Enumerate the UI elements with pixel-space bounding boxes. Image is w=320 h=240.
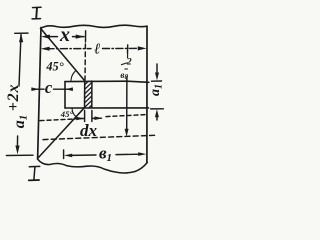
- elementary strip dx (hatched): [85, 81, 92, 108]
- svg-text:45°: 45°: [60, 109, 74, 119]
- vertical dimension line at x=127 with down arrow: [126, 77, 128, 132]
- angle arc (lower 45°): [72, 108, 76, 117]
- tick on ell line at x=127.5: [127, 45, 129, 53]
- dashed extension of dx line (right): [106, 115, 146, 117]
- label I (top): [32, 7, 41, 19]
- label I (bottom): [29, 166, 40, 180]
- dimension b1 (bottom): tick, line, arrows: [63, 150, 65, 159]
- label b0=h/2 (small stacked annotation): [120, 53, 131, 81]
- plate top edge (wavy break line): [41, 25, 148, 28]
- dimension a1 (right side): extension ticks: [151, 81, 164, 109]
- dimension x: extension tick: [85, 31, 87, 42]
- angle arc (upper 45°): [71, 71, 75, 81]
- 45-degree diagonal (lower): [38, 108, 84, 158]
- svg-text:dx: dx: [80, 121, 98, 140]
- svg-text:+2x: +2x: [5, 84, 22, 112]
- plate left edge (section I-I line): [38, 28, 41, 160]
- dimension a1+2x: extension ticks: [6, 33, 33, 155]
- dimension c: arrows and segments: [32, 88, 72, 90]
- svg-text:x: x: [59, 24, 70, 46]
- dimension x: line and arrows: [47, 36, 85, 38]
- plate right edge: [146, 26, 148, 162]
- strap left edge: [64, 82, 66, 108]
- dimension ell: dash-dot line and arrows: [47, 47, 141, 49]
- svg-text:c: c: [45, 78, 53, 97]
- strap top edge: [65, 81, 149, 82]
- strap bottom edge: [65, 107, 149, 109]
- dimension a1: arrows: [156, 64, 158, 120]
- dimension dx: outside arrows and ticks: [85, 111, 92, 122]
- dashed extension of dx line (left): [40, 119, 75, 121]
- 45-degree diagonal (upper): [41, 29, 85, 81]
- svg-text:45°: 45°: [45, 59, 63, 73]
- svg-text:ℓ: ℓ: [94, 42, 100, 58]
- extension line (dashed vertical at strip left edge): [84, 44, 86, 80]
- plate bottom edge (wavy break line): [38, 159, 148, 173]
- lower dashed axis line: [43, 135, 157, 139]
- dimension a1+2x (left side): line: [17, 35, 21, 150]
